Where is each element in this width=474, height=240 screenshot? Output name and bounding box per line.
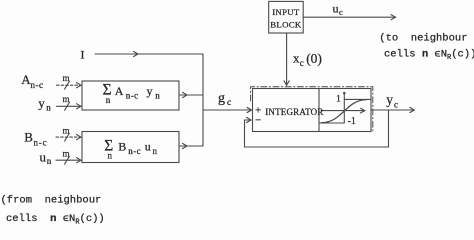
svg-text:n: n bbox=[108, 150, 113, 160]
svg-text:c: c bbox=[227, 98, 231, 108]
svg-text:n: n bbox=[106, 95, 111, 105]
svg-text:n-c: n-c bbox=[31, 80, 44, 90]
wire arrowhead x_c(0) bbox=[284, 81, 289, 86]
svg-text:u: u bbox=[40, 149, 47, 164]
svg-text:y: y bbox=[386, 92, 393, 107]
node sigmoid y-axis bbox=[343, 93, 345, 124]
wire I bias line bbox=[95, 53, 203, 55]
svg-text:c: c bbox=[394, 99, 398, 109]
wire y_c output bbox=[371, 109, 414, 111]
svg-text:u: u bbox=[145, 140, 151, 154]
wire feedback loop bbox=[245, 110, 389, 147]
svg-text:n: n bbox=[47, 156, 52, 166]
wire u_c output line bbox=[303, 16, 395, 18]
wire divider between integrator and nonlinearity bbox=[318, 89, 320, 132]
wire sigmoid x-axis bbox=[321, 110, 365, 112]
wire bus arrow u_n input bbox=[56, 159, 81, 161]
wire bus arrow A n-c input (dashed) bbox=[57, 84, 81, 86]
svg-text:n: n bbox=[155, 90, 160, 100]
svg-text:m: m bbox=[63, 94, 70, 104]
svg-text:n: n bbox=[153, 146, 158, 156]
svg-text:(0): (0) bbox=[306, 51, 322, 66]
block B-template sum box bbox=[82, 132, 179, 163]
svg-text:c: c bbox=[339, 7, 343, 17]
wire arrowhead feedback bbox=[247, 117, 252, 122]
wire x_c(0) line down bbox=[286, 33, 288, 85]
wire A box output bbox=[179, 94, 203, 96]
svg-text:m: m bbox=[63, 125, 70, 135]
wire sigmoid -1 saturation level bbox=[320, 122, 345, 124]
svg-text:u: u bbox=[333, 2, 339, 16]
block dash-dot cell boundary bbox=[251, 87, 373, 133]
svg-text:INPUT: INPUT bbox=[272, 7, 300, 17]
svg-text:cells n ϵNR(c)): cells n ϵNR(c)) bbox=[384, 48, 474, 62]
svg-text:B: B bbox=[118, 140, 126, 154]
wire arrowhead on I line bbox=[134, 51, 139, 56]
svg-text:−: − bbox=[255, 115, 261, 127]
svg-text:y: y bbox=[147, 84, 153, 98]
svg-text:B: B bbox=[24, 130, 33, 145]
wire arrowhead g_c bbox=[247, 107, 252, 112]
svg-text:INTEGRATOR: INTEGRATOR bbox=[265, 107, 323, 117]
svg-text:A: A bbox=[115, 84, 124, 98]
svg-text:m: m bbox=[63, 149, 70, 159]
svg-text:n-c: n-c bbox=[128, 146, 141, 156]
wire sigmoid +1 saturation level bbox=[344, 98, 371, 100]
svg-text:g: g bbox=[218, 91, 225, 106]
wire arrowhead A output bbox=[183, 92, 188, 97]
svg-text:n: n bbox=[46, 103, 51, 113]
svg-text:1: 1 bbox=[336, 93, 341, 103]
svg-text:m: m bbox=[63, 73, 70, 83]
sigmoid nonlinearity curve bbox=[322, 100, 367, 123]
wire arrowhead B output bbox=[183, 143, 188, 148]
svg-text:-1: -1 bbox=[348, 116, 356, 127]
svg-text:c: c bbox=[300, 58, 304, 68]
svg-text:n-c: n-c bbox=[126, 90, 139, 100]
svg-text:(to neighbour: (to neighbour bbox=[379, 32, 467, 44]
wire vertical summing bus bbox=[202, 54, 204, 146]
wire B box output bbox=[179, 145, 203, 147]
block A-template sum box bbox=[82, 81, 179, 110]
block integrator+output solid box bbox=[253, 89, 372, 132]
svg-text:BLOCK: BLOCK bbox=[270, 20, 302, 30]
svg-text:n-c: n-c bbox=[34, 138, 48, 148]
block INPUT BLOCK box bbox=[269, 1, 304, 33]
svg-text:y: y bbox=[38, 96, 45, 111]
svg-text:(from neighbour: (from neighbour bbox=[1, 194, 102, 206]
wire bus arrow y_n input bbox=[57, 105, 81, 107]
wire bus arrow B n-c input (dashed) bbox=[56, 136, 81, 138]
svg-text:I: I bbox=[81, 48, 85, 62]
svg-text:cells n ϵNR(c)): cells n ϵNR(c)) bbox=[6, 213, 105, 227]
wire g_c line into integrator bbox=[203, 109, 252, 111]
wire arrowhead u_c bbox=[391, 15, 396, 20]
